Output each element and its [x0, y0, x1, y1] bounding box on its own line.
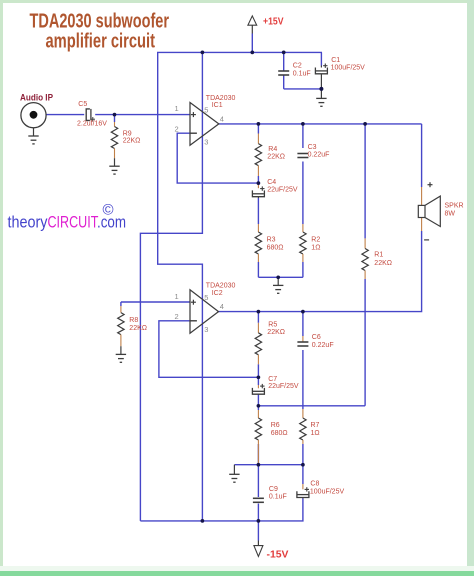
wire C1 top lead — [320, 52, 322, 65]
wire IC1 feedback pin2 — [177, 133, 258, 183]
wire R4 column — [257, 124, 259, 183]
svg-text:2: 2 — [175, 124, 179, 133]
label C6 — [312, 334, 321, 341]
svg-text:-15V: -15V — [267, 548, 289, 560]
ground below R8 — [116, 346, 126, 362]
wire C6 column — [302, 312, 304, 409]
svg-text:C1: C1 — [331, 57, 340, 64]
svg-text:0.1uF: 0.1uF — [293, 71, 311, 78]
svg-text:0.22uF: 0.22uF — [308, 152, 330, 159]
resistor R1 — [362, 238, 368, 279]
svg-text:1: 1 — [175, 104, 179, 113]
label R5 — [268, 321, 277, 328]
wire speaker positive lead — [421, 124, 423, 187]
svg-text:0.1uF: 0.1uF — [269, 494, 287, 501]
svg-text:C7: C7 — [268, 376, 277, 383]
audio input connector — [21, 103, 46, 136]
svg-text:C9: C9 — [269, 486, 278, 493]
label R6 value — [271, 430, 288, 437]
capacitor C9 — [253, 498, 264, 502]
svg-text:22KΩ: 22KΩ — [267, 154, 285, 161]
label C1 value — [331, 65, 366, 72]
wire R3 R2 ground rail — [258, 276, 303, 278]
wire speaker negative to IC2 output — [219, 231, 422, 312]
label R2 — [311, 237, 320, 244]
label C2 value — [293, 71, 311, 78]
svg-text:C3: C3 — [308, 144, 317, 151]
svg-text:R7: R7 — [311, 422, 320, 429]
label IC2 TDA2030 — [206, 283, 236, 290]
svg-text:C5: C5 — [78, 101, 87, 108]
label R6 — [271, 422, 280, 429]
svg-text:680Ω: 680Ω — [267, 245, 284, 252]
wire R3 bottom — [257, 262, 259, 277]
wire IC2 pin1 from R8 — [121, 301, 190, 303]
capacitor C2 — [278, 71, 289, 75]
wire C9 column — [257, 465, 259, 521]
wire R7 bottom — [302, 444, 304, 465]
label C7 — [268, 376, 277, 383]
label IC2 — [212, 290, 223, 297]
label R7 — [311, 422, 320, 429]
svg-text:+15V: +15V — [263, 16, 284, 28]
label C4 value — [267, 187, 298, 194]
label C7 value — [268, 383, 299, 390]
capacitor C6 — [297, 336, 308, 346]
svg-text:R3: R3 — [267, 237, 276, 244]
svg-text:1Ω: 1Ω — [311, 430, 320, 437]
wire IC1 output rail — [219, 123, 422, 125]
svg-text:R6: R6 — [271, 422, 280, 429]
pin 2 IC2 — [175, 312, 179, 321]
label C8 value — [310, 488, 345, 495]
label R1 value — [374, 260, 392, 267]
wire -15V stem — [257, 521, 259, 546]
wire C4 to R3 — [257, 198, 259, 224]
label C6 value — [312, 342, 334, 349]
pin 1 IC1 — [175, 104, 179, 113]
svg-text:R8: R8 — [129, 317, 138, 324]
svg-text:22uF/25V: 22uF/25V — [267, 187, 298, 194]
svg-text:4: 4 — [220, 115, 224, 124]
label R5 value — [267, 329, 285, 336]
resistor R3 — [255, 224, 261, 262]
svg-text:5: 5 — [204, 293, 208, 302]
pin 3 IC1 — [204, 137, 208, 146]
label R8 value — [129, 325, 147, 332]
label R4 — [268, 146, 277, 153]
wire R1 branch — [364, 124, 366, 406]
resistor R2 — [300, 224, 306, 262]
wire ground rail below R6 R7 — [234, 464, 303, 466]
resistor R8 — [118, 302, 124, 346]
svg-text:8W: 8W — [445, 211, 456, 218]
pin 2 IC1 — [175, 124, 179, 133]
resistor R6 — [255, 410, 261, 465]
svg-text:R1: R1 — [374, 252, 383, 259]
label R9 — [123, 130, 132, 137]
title text — [30, 11, 170, 53]
capacitor C5 — [86, 109, 95, 122]
svg-text:TDA2030: TDA2030 — [206, 95, 236, 102]
svg-text:IC2: IC2 — [212, 290, 223, 297]
svg-text:22KΩ: 22KΩ — [129, 325, 147, 332]
pin 5 IC1 — [204, 105, 208, 114]
label R2 value — [311, 245, 320, 252]
op-amp IC1 — [190, 103, 219, 146]
svg-text:TDA2030 subwoofer: TDA2030 subwoofer — [30, 11, 170, 33]
wire C2 C1 bottom — [284, 88, 322, 90]
watermark theoryCIRCUIT.com — [8, 202, 127, 232]
resistor R9 — [111, 115, 117, 159]
svg-text:R5: R5 — [268, 321, 277, 328]
speaker SPKR — [418, 182, 440, 240]
svg-text:1Ω: 1Ω — [311, 245, 320, 252]
svg-text:4: 4 — [220, 302, 224, 311]
pin 3 IC2 — [204, 325, 208, 334]
svg-text:22KΩ: 22KΩ — [374, 260, 392, 267]
label C3 — [308, 144, 317, 151]
label C5 — [78, 101, 87, 108]
label SPKR — [445, 202, 464, 209]
-15V power symbol — [254, 546, 289, 561]
+15V power symbol — [248, 16, 284, 53]
op-amp IC2 — [190, 290, 219, 334]
svg-text:©: © — [103, 202, 114, 219]
label R1 — [374, 252, 383, 259]
label R9 value — [123, 137, 141, 144]
label C8 — [310, 481, 319, 488]
svg-text:3: 3 — [204, 137, 208, 146]
wire C3 column — [302, 124, 304, 224]
svg-text:C8: C8 — [310, 481, 319, 488]
pin 4 IC2 — [220, 302, 224, 311]
svg-text:22KΩ: 22KΩ — [267, 329, 285, 336]
svg-text:Audio IP: Audio IP — [20, 92, 53, 102]
svg-text:5: 5 — [204, 105, 208, 114]
capacitor C4 — [252, 183, 264, 198]
ground below R9 — [109, 158, 119, 174]
label R3 value — [267, 245, 284, 252]
svg-text:R4: R4 — [268, 146, 277, 153]
svg-text:TDA2030: TDA2030 — [206, 283, 236, 290]
label R7 value — [311, 430, 320, 437]
svg-text:C2: C2 — [293, 62, 302, 69]
svg-text:R9: R9 — [123, 130, 132, 137]
svg-text:2.2uf/16V: 2.2uf/16V — [77, 120, 107, 127]
svg-text:amplifier circuit: amplifier circuit — [46, 31, 156, 53]
svg-text:22KΩ: 22KΩ — [123, 137, 141, 144]
label C3 value — [308, 152, 330, 159]
label R4 value — [267, 154, 285, 161]
svg-text:680Ω: 680Ω — [271, 430, 288, 437]
wire C8 leads — [140, 465, 303, 521]
capacitor C1 — [315, 64, 327, 89]
capacitor C8 — [297, 484, 309, 498]
label C9 — [269, 486, 278, 493]
wire R6 leads blue — [257, 406, 259, 465]
svg-text:IC1: IC1 — [212, 102, 223, 109]
wire C7 bottom to R1 — [258, 405, 365, 407]
wire R5 column — [257, 312, 259, 378]
resistor R4 — [255, 134, 261, 177]
label R3 — [267, 237, 276, 244]
resistor R5 — [255, 323, 261, 365]
ground below R3 R2 — [273, 277, 283, 293]
ground left of C9 — [229, 465, 239, 483]
pin 5 IC2 — [204, 293, 208, 302]
svg-text:0.22uF: 0.22uF — [312, 342, 334, 349]
svg-text:22uF/25V: 22uF/25V — [268, 383, 299, 390]
wire IC2 feedback pin2 — [159, 321, 259, 378]
capacitor C3 — [297, 154, 308, 158]
label C4 — [267, 179, 276, 186]
capacitor C7 — [252, 384, 264, 395]
ground below C1 — [316, 89, 326, 106]
resistor R7 — [300, 409, 306, 444]
wire IC1 supply line to -15V rail — [140, 52, 202, 521]
svg-text:100uF/25V: 100uF/25V — [331, 65, 366, 72]
label IC1 TDA2030 — [206, 95, 236, 102]
svg-text:2: 2 — [175, 312, 179, 321]
label speaker 8W — [445, 211, 456, 218]
wire C2 branch — [283, 52, 285, 89]
wire C7 leads — [257, 377, 259, 406]
pin 1 IC2 — [175, 292, 179, 301]
svg-text:C4: C4 — [267, 179, 276, 186]
svg-text:R2: R2 — [311, 237, 320, 244]
label R8 — [129, 317, 138, 324]
pin 4 IC1 — [220, 115, 224, 124]
svg-text:1: 1 — [175, 292, 179, 301]
wire +15V rail to IC2 supply — [158, 52, 322, 521]
svg-text:3: 3 — [204, 325, 208, 334]
label C9 value — [269, 494, 287, 501]
wire audio input to IC1 pin1 — [46, 114, 190, 116]
label C2 — [293, 62, 302, 69]
svg-text:SPKR: SPKR — [445, 202, 464, 209]
label C1 — [331, 57, 340, 64]
svg-text:100uF/25V: 100uF/25V — [310, 488, 345, 495]
label IC1 — [212, 102, 223, 109]
wire R2 bottom — [302, 262, 304, 277]
label C5 value — [77, 120, 107, 127]
label Audio IP — [20, 92, 53, 102]
ground below audio jack — [28, 136, 38, 144]
svg-text:C6: C6 — [312, 334, 321, 341]
